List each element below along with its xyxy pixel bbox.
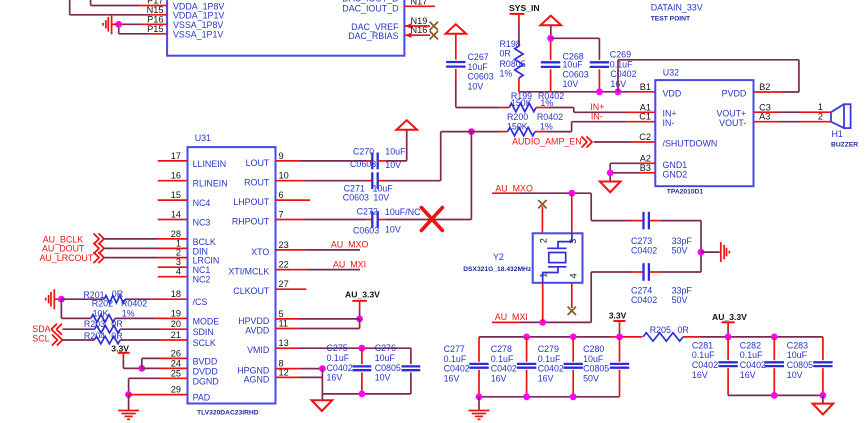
capacitor C272 pkg C0603: [353, 225, 379, 235]
junction node AU_MXO/Y2.3: [568, 190, 575, 197]
capacitor C276 label: [375, 343, 396, 353]
capacitor C272 label: [357, 206, 378, 216]
chassis ground (analog gnd, left of P16): [103, 14, 119, 34]
pin 6 label: [279, 190, 284, 200]
wire C268-C269 link: [551, 38, 600, 60]
wire pin 14 stub: [158, 219, 188, 221]
svg-text:C279: C279: [538, 344, 559, 354]
svg-text:10V: 10V: [373, 192, 389, 202]
svg-text:AU_LRCOUT: AU_LRCOUT: [40, 253, 94, 263]
pin name DAC_RBIAS: [348, 31, 398, 41]
svg-text:DSX321G_18.432MHz: DSX321G_18.432MHz: [463, 266, 532, 273]
U32 pin name /SHUTDOWN: [663, 138, 718, 148]
port chevron SDA: [51, 324, 61, 334]
svg-text:MODE: MODE: [193, 316, 220, 326]
wire XTO: [276, 249, 361, 251]
resistor R203: [95, 325, 121, 333]
capacitor C267: [446, 62, 465, 67]
junction node VSSA: [115, 21, 122, 28]
pin B1 label: [640, 82, 651, 92]
svg-text:C281: C281: [692, 340, 713, 350]
resistor R202 tol 1%: [122, 308, 135, 318]
svg-text:C276: C276: [375, 343, 396, 353]
svg-text:IN-: IN-: [663, 118, 675, 128]
capacitor C272 value 10uF/NC: [385, 207, 421, 217]
resistor R201 value 0R: [112, 289, 123, 299]
ref designator Y2: [493, 252, 504, 262]
junction node GND2: [607, 169, 614, 176]
test point label: [651, 15, 691, 22]
junction node C280 top: [616, 334, 623, 341]
resistor R203 value 0R: [111, 319, 122, 329]
U31 pin name MODE: [193, 316, 220, 326]
pin 2 label: [176, 248, 181, 258]
U32 pin name IN-: [663, 118, 675, 128]
wire C277 bottom: [478, 370, 480, 397]
svg-text:0.1uF: 0.1uF: [327, 353, 350, 363]
resistor R205 value 0R: [678, 325, 689, 335]
wire VOUT- to buzzer pin2: [754, 121, 832, 123]
svg-text:0.1uF: 0.1uF: [491, 354, 514, 364]
wire C278 top: [526, 337, 528, 362]
wire AUDIO_AMP_EN to U32.C2: [594, 141, 656, 143]
resistor R202 pkg R0402: [121, 298, 147, 308]
ground symbol AU_3.3V rail (triangle): [813, 404, 834, 415]
svg-text:25: 25: [171, 368, 181, 378]
U31 pin name AVDD: [245, 326, 269, 336]
svg-text:TPA2010D1: TPA2010D1: [667, 188, 704, 195]
wire DGND: [129, 378, 188, 394]
wire 3.3V stem: [123, 353, 141, 369]
U32 pin name VDD: [663, 88, 682, 98]
svg-text:10uF: 10uF: [468, 62, 489, 72]
U31 pin name DIN: [193, 246, 208, 256]
capacitor C277 pkg: [444, 364, 470, 374]
resistor R199: [509, 103, 536, 111]
wire AU_LRCOUT: [104, 257, 188, 259]
capacitor C267 value 10uF: [468, 62, 489, 72]
capacitor C280: [610, 364, 629, 368]
junction node C278 top: [523, 334, 530, 341]
wire BVDD riser: [142, 358, 188, 368]
pin 7 label: [279, 210, 284, 220]
port chevron SCL: [52, 335, 62, 345]
pin 23 label: [279, 240, 289, 250]
pin N17 label: [411, 0, 428, 7]
junction node AGND rail/C275: [359, 391, 366, 398]
resistor R198 value 0R: [500, 49, 511, 59]
junction node C282 top: [771, 334, 778, 341]
capacitor C277: [469, 364, 488, 368]
capacitor C278: [517, 364, 536, 368]
svg-text:10V: 10V: [563, 79, 579, 89]
wire AU_MXI line: [492, 272, 591, 322]
pin 9 label: [279, 151, 284, 161]
svg-text:16V: 16V: [491, 373, 507, 383]
capacitor C270 label: [353, 147, 374, 157]
svg-text:VDDA_1P1V: VDDA_1P1V: [173, 11, 224, 21]
svg-text:C0805: C0805: [375, 363, 401, 373]
svg-text:SDIN: SDIN: [193, 327, 214, 337]
capacitor C279 value: [538, 354, 561, 364]
wire Y2 pin1: [542, 283, 544, 323]
wire HPGND: [276, 368, 323, 370]
resistor R205: [643, 333, 683, 341]
wire C280 bottom: [619, 370, 621, 397]
pin 29 label: [171, 385, 181, 395]
net label AU_LRCOUT: [40, 253, 94, 263]
resistor R201 label: [83, 290, 104, 300]
U31 pin name HPVDD: [238, 316, 269, 326]
no-connect X N16: [430, 31, 438, 39]
pin P15 label: [147, 24, 163, 34]
wire AGND: [276, 376, 323, 378]
resistor R204 label: [84, 331, 105, 341]
junction node C278 bottom: [523, 393, 530, 400]
wire N15 VDDA_1P1V: [70, 0, 167, 15]
capacitor C276 pkg C0805: [375, 363, 401, 373]
junction node HPVDD: [356, 316, 363, 323]
pin 21 label: [171, 330, 181, 340]
svg-text:50V: 50V: [583, 373, 599, 383]
svg-text:22: 22: [279, 260, 289, 270]
net label AUDIO_AMP_EN: [512, 137, 582, 147]
wire VOUT+ to buzzer pin1: [754, 111, 832, 113]
svg-text:C0402: C0402: [631, 245, 657, 255]
part number TPA2010D1: [667, 188, 704, 195]
svg-text:CLKOUT: CLKOUT: [233, 286, 270, 296]
resistor R202 value 10K: [93, 308, 109, 318]
svg-text:DGND: DGND: [193, 376, 219, 386]
wire Y2 pin3: [571, 193, 573, 233]
resistor R199 label: [511, 91, 532, 101]
wire ROUT to C271: [276, 180, 372, 182]
wire Y2 pin2: [541, 207, 543, 234]
resistor R200 tol 1%: [540, 122, 553, 132]
arrow N19 (input): [405, 23, 412, 28]
wire C275 top: [361, 348, 363, 364]
junction node VMID/C275: [359, 345, 366, 352]
svg-text:0R: 0R: [500, 49, 511, 59]
svg-text:RLINEIN: RLINEIN: [193, 179, 228, 189]
svg-text:IN+: IN+: [663, 109, 677, 119]
junction node C282 bottom: [771, 392, 778, 399]
wire pin 15 stub: [158, 199, 188, 201]
junction node ROUT/R200: [468, 128, 475, 135]
svg-text:R200: R200: [507, 112, 528, 122]
svg-text:C0402: C0402: [491, 364, 517, 374]
svg-text:LOUT: LOUT: [246, 158, 270, 168]
capacitor C267 label: [468, 52, 489, 62]
svg-text:24: 24: [171, 358, 181, 368]
svg-text:0.1uF: 0.1uF: [740, 350, 763, 360]
svg-text:0.1uF: 0.1uF: [444, 354, 467, 364]
svg-text:P16: P16: [147, 14, 163, 24]
svg-text:10uF: 10uF: [787, 350, 808, 360]
svg-text:C0603: C0603: [563, 69, 589, 79]
U31 pin name VMID: [247, 345, 269, 355]
junction node HPGND: [319, 365, 326, 372]
junction node CS gnd: [58, 296, 65, 303]
wire SDIN left: [62, 328, 94, 330]
port chevron AU_DOUT: [94, 243, 104, 253]
capacitor C281 value: [692, 350, 715, 360]
crystal Y2 box: [533, 233, 583, 282]
junction node C269 bottom: [596, 88, 603, 95]
svg-text:C0805: C0805: [583, 364, 609, 374]
wire C282 bottom: [773, 368, 775, 395]
resistor R198 pkg R0805: [500, 59, 526, 69]
svg-text:/SHUTDOWN: /SHUTDOWN: [663, 138, 718, 148]
svg-text:17: 17: [171, 151, 181, 161]
svg-text:B2: B2: [759, 82, 770, 92]
svg-text:28: 28: [171, 229, 181, 239]
wire LHPOUT stub: [276, 199, 311, 201]
svg-text:C1: C1: [639, 112, 651, 122]
U31 pin name SDIN: [193, 327, 214, 337]
arrow N16 (input): [405, 33, 412, 38]
wire 3.3V rail stem: [619, 321, 621, 337]
svg-text:50V: 50V: [672, 295, 688, 305]
wire C271 up to R200 node: [378, 132, 441, 181]
junction node AU_MXI/Y2.1: [539, 319, 546, 326]
wire C281 bottom: [727, 368, 729, 395]
wire C282 top: [773, 337, 775, 360]
capacitor C279 pkg: [538, 364, 564, 374]
svg-text:20: 20: [171, 319, 181, 329]
svg-text:5: 5: [279, 309, 284, 319]
capacitor C278 label: [491, 344, 512, 354]
net label IN+: [590, 102, 604, 112]
ref designator U31: [195, 133, 211, 143]
wire to earth ground: [128, 395, 130, 411]
chassis ground (near R201): [46, 289, 62, 309]
pin C2 label: [639, 132, 651, 142]
pin name VSSA_1P8V: [173, 20, 223, 30]
svg-text:29: 29: [171, 385, 181, 395]
capacitor C280 pkg: [583, 364, 609, 374]
svg-text:50V: 50V: [672, 245, 688, 255]
resistor R204: [94, 336, 120, 344]
U31 pin name BVDD: [193, 356, 218, 366]
svg-text:B1: B1: [640, 82, 651, 92]
pin A3 label: [759, 112, 770, 122]
wire /CS right: [125, 298, 188, 300]
svg-text:GND2: GND2: [663, 169, 688, 179]
wire GND2: [610, 172, 655, 174]
power symbol above C270: [396, 120, 417, 130]
svg-text:U31: U31: [195, 133, 211, 143]
pin 17 label: [171, 151, 181, 161]
svg-text:BVDD: BVDD: [193, 356, 218, 366]
capacitor C274 label: [631, 285, 652, 295]
capacitor C274: [644, 263, 649, 281]
svg-text:18: 18: [171, 289, 181, 299]
wire RHPOUT to C272: [276, 219, 372, 221]
svg-text:A2: A2: [640, 153, 651, 163]
svg-text:C0402: C0402: [740, 360, 766, 370]
wire DVDD: [142, 367, 188, 369]
pin 14 label: [171, 210, 181, 220]
junction node DGND/PAD: [125, 391, 132, 398]
net label AU_MXO (crystal): [495, 183, 533, 193]
wire R199 left: [500, 107, 510, 109]
svg-text:10V: 10V: [385, 160, 401, 170]
svg-text:C269: C269: [610, 50, 631, 60]
capacitor C270 value 10uF: [385, 147, 406, 157]
wire C269 bottom: [598, 69, 600, 92]
svg-text:AU_MXI: AU_MXI: [333, 259, 366, 269]
svg-text:16V: 16V: [692, 370, 708, 380]
svg-text:C0402: C0402: [692, 360, 718, 370]
wire XTI/MCLK: [276, 269, 361, 271]
capacitor C276 volt 10V: [375, 373, 391, 383]
no-connect X C272 (big red): [421, 208, 442, 231]
wire R199 to IN+: [536, 108, 655, 113]
pin N16 label: [411, 25, 428, 35]
svg-text:IN-: IN-: [591, 112, 603, 122]
pin 25 label: [171, 368, 181, 378]
capacitor C268 volt 10V: [563, 79, 579, 89]
svg-text:10V: 10V: [468, 81, 484, 91]
svg-text:PAD: PAD: [193, 393, 211, 403]
pin 1 label: [176, 238, 181, 248]
chassis ground (crystal): [701, 242, 729, 262]
svg-text:SYS_IN: SYS_IN: [509, 3, 540, 13]
net label DATAIN_33V: [651, 3, 703, 13]
capacitor C274 value 33pF: [672, 285, 693, 295]
wire AGND rail: [322, 369, 411, 394]
capacitor C268: [541, 62, 560, 67]
wire AVDD: [276, 319, 360, 329]
capacitor C273 pkg C0402: [631, 245, 657, 255]
U31 pin name CLKOUT: [233, 286, 270, 296]
svg-text:C283: C283: [787, 340, 808, 350]
IC U30 (top-left DAC chip, partially cut off): [167, 0, 404, 56]
capacitor C281: [718, 362, 737, 366]
svg-text:3.3V: 3.3V: [609, 311, 627, 321]
U32 pin name VOUT-: [719, 118, 746, 128]
pin 5 label: [279, 309, 284, 319]
wire C281 top: [727, 337, 729, 360]
junction node C268 top: [547, 35, 554, 42]
pin 10 label: [279, 171, 289, 181]
svg-text:C275: C275: [327, 343, 348, 353]
svg-text:16V: 16V: [538, 373, 554, 383]
pin P17 label: [147, 0, 163, 6]
svg-text:4: 4: [176, 267, 181, 277]
svg-text:10uF: 10uF: [375, 353, 396, 363]
power symbol 3.3V (rail): [609, 311, 627, 321]
net label AU_BCLK: [43, 234, 84, 244]
wire VMID: [276, 347, 411, 349]
svg-text:3: 3: [176, 257, 181, 267]
svg-text:XTI/MCLK: XTI/MCLK: [228, 267, 269, 277]
U31 pin name RHPOUT: [232, 217, 270, 227]
svg-text:TLV320DAC23IRHD: TLV320DAC23IRHD: [197, 410, 259, 417]
wire C267 top: [455, 34, 457, 60]
wire to earth ground (left rail): [478, 397, 480, 411]
pin N19 label: [411, 16, 428, 26]
wire AU_MXO line: [492, 193, 591, 220]
pin 12 label: [279, 367, 289, 377]
wire Y2 pin4: [571, 283, 573, 308]
pin C3 label: [759, 102, 771, 112]
U32 pin name IN+: [663, 109, 677, 119]
capacitor C268 label: [563, 51, 584, 61]
svg-text:C280: C280: [583, 344, 604, 354]
svg-text:B3: B3: [640, 163, 651, 173]
svg-text:1%: 1%: [500, 68, 513, 78]
svg-text:AU_DOUT: AU_DOUT: [42, 244, 85, 254]
pin 13 label: [279, 338, 289, 348]
svg-text:DATAIN_33V: DATAIN_33V: [651, 3, 703, 13]
capacitor C269 value 0.1uF: [610, 59, 633, 69]
pin N15 label: [147, 5, 164, 15]
capacitor C282 label: [740, 340, 761, 350]
capacitor C271 label: [344, 183, 365, 193]
U31 pin name XTO: [251, 247, 269, 257]
U31 pin name ROUT: [244, 178, 270, 188]
capacitor C283 value: [787, 350, 808, 360]
junction node C281 top: [725, 334, 732, 341]
svg-text:SDA: SDA: [32, 324, 50, 334]
wire C268 top: [550, 25, 552, 60]
capacitor C273 value 33pF: [672, 236, 693, 246]
capacitor C277 value: [444, 354, 467, 364]
capacitor C281 pkg: [692, 360, 718, 370]
svg-text:/CS: /CS: [193, 297, 208, 307]
capacitor C283 volt: [787, 370, 803, 380]
wire right rail bottom: [728, 394, 823, 396]
wire pin 17 stub: [158, 160, 188, 162]
net label SCL: [32, 334, 49, 344]
svg-text:10V: 10V: [787, 370, 803, 380]
svg-text:C0402: C0402: [631, 295, 657, 305]
power symbol above C268: [541, 16, 562, 26]
svg-text:C0402: C0402: [610, 69, 636, 79]
svg-text:C272: C272: [357, 206, 378, 216]
U31 pin name XTI/MCLK: [228, 267, 269, 277]
wire left rail bottom: [479, 396, 620, 398]
pin 20 label: [171, 319, 181, 329]
capacitor C273 volt 50V: [672, 245, 688, 255]
wire C283 top: [822, 337, 824, 360]
wire C270 to power: [378, 130, 407, 161]
svg-text:RHPOUT: RHPOUT: [232, 217, 270, 227]
resistor R204 value 0R: [111, 331, 122, 341]
junction node C279 bottom: [570, 393, 577, 400]
svg-text:VDD: VDD: [663, 88, 682, 98]
capacitor C279: [564, 364, 583, 368]
capacitor C283 label: [787, 340, 808, 350]
junction node left rail gnd: [476, 393, 483, 400]
net label AU_MXI (XTI): [333, 259, 366, 269]
capacitor C280 label: [583, 344, 604, 354]
svg-text:10V: 10V: [385, 225, 401, 235]
svg-text:SCL: SCL: [32, 334, 49, 344]
capacitor C282 value: [740, 350, 763, 360]
capacitor C278 volt: [491, 373, 507, 383]
capacitor C273: [644, 212, 649, 230]
capacitor C275 label: [327, 343, 348, 353]
svg-text:1%: 1%: [540, 122, 553, 132]
svg-text:10V: 10V: [375, 373, 391, 383]
wire P16 VSSA_1P8V: [119, 23, 167, 25]
port chevron AU_BCLK: [94, 234, 104, 244]
wire MODE left: [61, 299, 91, 318]
wire AU_3.3V stem: [359, 301, 361, 319]
